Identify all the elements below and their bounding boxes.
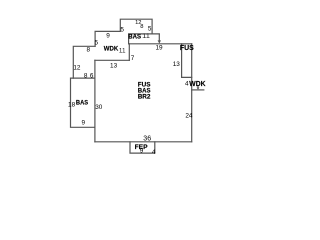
svg-text:4: 4 (185, 80, 189, 87)
svg-text:5: 5 (120, 27, 124, 34)
svg-text:BR2: BR2 (138, 94, 151, 101)
svg-text:BAS: BAS (128, 34, 141, 41)
svg-text:WDK: WDK (189, 79, 206, 88)
svg-text:12: 12 (73, 65, 81, 72)
svg-text:30: 30 (95, 104, 103, 111)
svg-text:11: 11 (142, 34, 151, 40)
svg-text:7: 7 (131, 55, 135, 62)
svg-text:8: 8 (87, 47, 91, 54)
svg-text:FUS: FUS (180, 45, 194, 52)
svg-text:5: 5 (95, 40, 99, 47)
svg-text:9: 9 (82, 119, 86, 126)
svg-text:8: 8 (84, 72, 88, 79)
svg-text:BAS: BAS (76, 99, 88, 106)
svg-text:6: 6 (90, 72, 94, 79)
svg-text:13: 13 (173, 61, 181, 68)
svg-text:9: 9 (140, 147, 144, 154)
svg-text:4: 4 (152, 149, 156, 156)
svg-text:19: 19 (155, 45, 163, 52)
svg-text:5: 5 (148, 26, 152, 33)
svg-text:11: 11 (119, 49, 126, 55)
svg-text:13: 13 (110, 63, 118, 70)
svg-text:9: 9 (106, 33, 110, 40)
svg-text:24: 24 (185, 113, 193, 120)
svg-text:36: 36 (143, 136, 151, 143)
svg-text:WDK: WDK (104, 45, 119, 52)
svg-text:8: 8 (140, 24, 143, 30)
svg-text:18: 18 (68, 101, 76, 108)
